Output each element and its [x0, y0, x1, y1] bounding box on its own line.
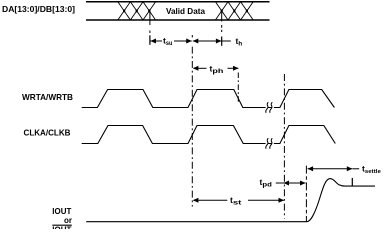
wire WRTA waveform [82, 90, 335, 108]
svg-text:CLKA/CLKB: CLKA/CLKB [24, 128, 71, 138]
reference line L4 [305, 166, 307, 222]
node tsettle right tick [351, 178, 353, 186]
label tph with arrows [194, 67, 239, 69]
svg-text:DA[13:0]/DB[13:0]: DA[13:0]/DB[13:0] [2, 4, 75, 14]
wire IOUT waveform [86, 179, 375, 222]
node th right reference tick [221, 11, 223, 22]
reference line L2 [237, 73, 239, 105]
node tsu left reference tick [149, 11, 151, 25]
label tsettle with arrows [308, 168, 360, 170]
node WRTA break symbol [266, 102, 273, 112]
label tpd with arrows [276, 182, 306, 184]
svg-text:WRTA/WRTB: WRTA/WRTB [22, 92, 73, 102]
node bus crosshatch 2 [215, 2, 253, 20]
label tst with arrows [194, 199, 284, 201]
wire bus bottom rail [86, 19, 270, 21]
reference line L3 [283, 74, 285, 219]
wire bus top rail [86, 1, 270, 3]
label th with arrows [193, 40, 231, 42]
reference line L1 [191, 35, 193, 37]
node CLKA break symbol [266, 138, 273, 148]
svg-text:or: or [64, 216, 72, 225]
wire CLKA waveform [82, 126, 336, 144]
label tsu with arrows [151, 40, 192, 42]
svg-text:IOUT: IOUT [52, 207, 71, 216]
node bus crosshatch 1 [118, 2, 156, 20]
svg-text:Valid Data: Valid Data [166, 7, 205, 16]
